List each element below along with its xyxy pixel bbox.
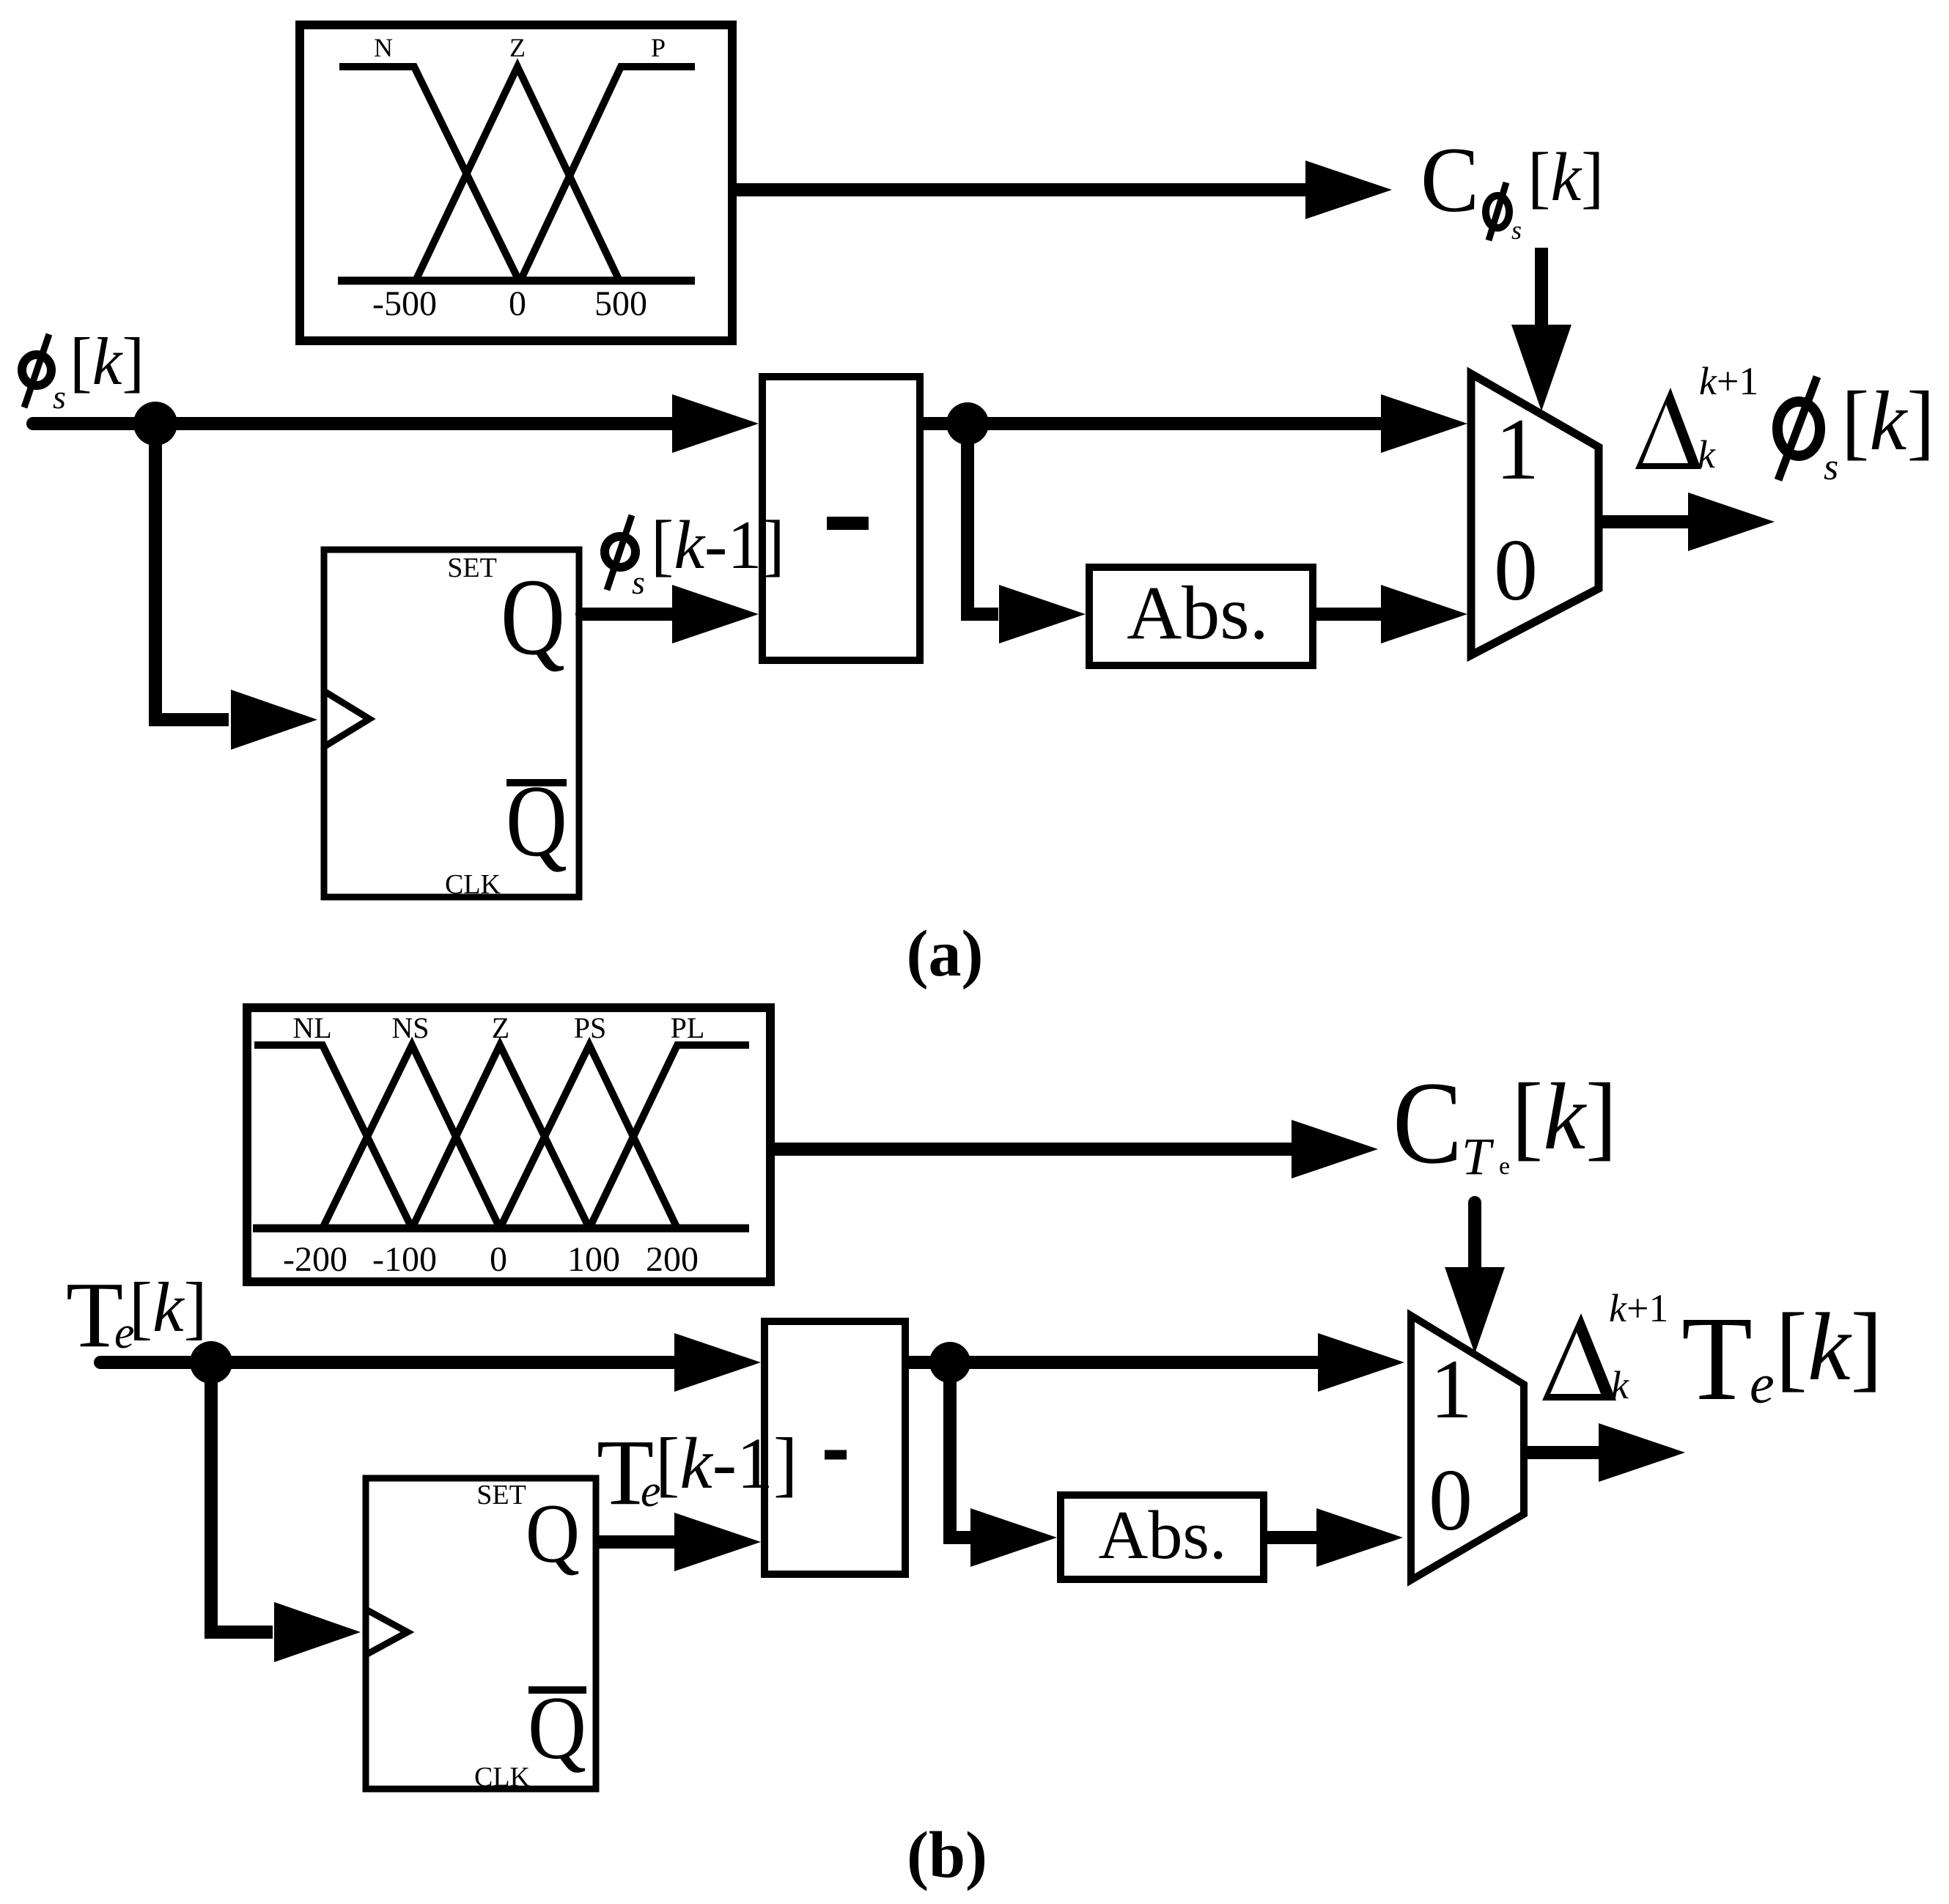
arrowhead into mux1 input 1 <box>1381 394 1467 453</box>
svg-text:[k-1]: [k-1] <box>655 1423 797 1504</box>
svg-text:NS: NS <box>391 1011 429 1044</box>
svg-text:k: k <box>1611 1363 1629 1407</box>
svg-text:Z: Z <box>509 33 526 62</box>
membership function PL <box>589 1045 749 1228</box>
svg-text:[k]: [k] <box>129 1268 207 1346</box>
membership function NS <box>323 1045 500 1228</box>
svg-text:[k]: [k] <box>1511 1064 1617 1170</box>
wire FZ1 to C output <box>737 183 1309 196</box>
arrowhead FZ1 out <box>1305 160 1392 219</box>
arrowhead into subtractor2 top <box>674 1333 761 1392</box>
Abs block A2 <box>1061 1495 1264 1579</box>
membership function Z <box>416 67 619 281</box>
svg-text:Abs.: Abs. <box>1099 1497 1227 1573</box>
svg-text:-100: -100 <box>372 1240 437 1279</box>
svg-text:Q: Q <box>528 1678 586 1778</box>
arrowhead into Abs2 <box>970 1508 1057 1567</box>
membership function NL <box>254 1045 412 1228</box>
mux MX1 <box>1471 374 1599 655</box>
svg-text:N: N <box>374 33 393 62</box>
svg-text:(b): (b) <box>907 1819 987 1892</box>
svg-text:CLK: CLK <box>445 869 501 900</box>
svg-text:e: e <box>1750 1354 1775 1415</box>
svg-text:[k]: [k] <box>1775 1293 1883 1401</box>
clock triangle FF2 <box>366 1609 408 1655</box>
svg-text:C: C <box>1421 129 1479 232</box>
svg-text:s: s <box>1511 215 1522 245</box>
fuzzy membership box FZ1 <box>300 25 732 341</box>
membership function PS <box>500 1045 677 1228</box>
wire subtractor1 to mux1 <box>924 417 1384 430</box>
svg-text:-500: -500 <box>372 284 437 323</box>
Q2 output wire <box>600 1535 674 1549</box>
svg-text:200: 200 <box>646 1240 699 1279</box>
clock triangle FF1 <box>324 691 369 747</box>
fuzzy membership box FZ2 <box>247 1008 770 1282</box>
svg-text:1: 1 <box>1430 1343 1473 1436</box>
clock arrowhead FF2 <box>274 1602 361 1662</box>
arrowhead into subtractor1 top <box>672 394 759 453</box>
axis line FZ2 <box>253 1225 749 1233</box>
branch wire to Abs2 <box>950 1362 972 1538</box>
svg-text:C: C <box>1393 1058 1462 1188</box>
svg-text:s: s <box>53 378 66 416</box>
mux2 output wire <box>1524 1446 1602 1459</box>
label Qbar <box>506 779 567 786</box>
svg-text:PS: PS <box>574 1011 607 1044</box>
label phi_s[k-1] <box>605 507 785 601</box>
branch wire to Abs1 <box>968 424 998 614</box>
main wire T_e[k] <box>100 1356 674 1369</box>
mux2 output arrowhead <box>1599 1423 1685 1482</box>
clock wire from node N1 <box>155 424 229 720</box>
label T_e[k-1] <box>597 1420 797 1524</box>
svg-text:(a): (a) <box>907 918 984 990</box>
svg-text:SET: SET <box>476 1480 526 1510</box>
svg-text:e: e <box>1499 1153 1510 1180</box>
membership function Z2 <box>412 1045 589 1228</box>
svg-text:Z: Z <box>492 1011 509 1044</box>
svg-text:PL: PL <box>671 1011 705 1044</box>
main wire phi_s[k] <box>33 417 674 430</box>
selector wire into mux2 <box>1468 1203 1481 1269</box>
svg-text:0: 0 <box>490 1240 507 1279</box>
clock arrowhead FF1 <box>231 690 317 750</box>
selector wire into mux1 <box>1535 248 1548 326</box>
membership function N <box>339 67 519 281</box>
svg-text:100: 100 <box>567 1240 620 1279</box>
svg-text:[k]: [k] <box>1528 139 1604 215</box>
label C_T_e[k] <box>1393 1058 1617 1188</box>
wire subtractor2 to mux2 <box>909 1356 1321 1369</box>
label Delta_k^k+1 T_e[k] <box>1542 1286 1883 1425</box>
svg-text:1: 1 <box>1495 400 1539 498</box>
clock wire from node N3 <box>211 1362 273 1632</box>
node N4 after subtractor2 <box>929 1342 970 1383</box>
svg-text:T: T <box>1462 1127 1495 1186</box>
mux MX2 <box>1411 1316 1524 1580</box>
svg-text:0: 0 <box>1494 521 1538 619</box>
svg-text:P: P <box>651 33 666 62</box>
minus sign S2 <box>825 1450 847 1460</box>
arrowhead into mux2 input 0 <box>1316 1508 1403 1567</box>
Abs block A1 <box>1089 567 1313 665</box>
svg-text:0: 0 <box>509 284 526 323</box>
svg-text:[k]: [k] <box>1841 374 1935 468</box>
svg-text:k+1: k+1 <box>1699 359 1758 403</box>
arrowhead into Abs1 <box>999 585 1086 643</box>
svg-text:Q: Q <box>506 764 567 878</box>
input label phi_s[k] <box>22 324 144 416</box>
node N3 <box>190 1341 232 1384</box>
flip-flop FF1 <box>324 550 579 900</box>
svg-text:Q: Q <box>526 1487 580 1580</box>
arrowhead into mux2 input 1 <box>1318 1333 1404 1392</box>
svg-text:0: 0 <box>1429 1451 1473 1549</box>
flip-flop FF2 <box>366 1478 596 1793</box>
arrowhead into mux1 input 0 <box>1381 585 1467 643</box>
svg-text:SET: SET <box>447 553 497 583</box>
Abs1 out wire <box>1316 608 1385 621</box>
Q1 output wire <box>582 608 674 621</box>
Delta glyph (hand drawn) <box>1635 388 1701 469</box>
Abs2 out wire <box>1267 1531 1319 1544</box>
phi subscript glyph <box>1486 196 1509 228</box>
svg-text:k: k <box>1698 432 1716 476</box>
node N2 after subtractor1 <box>946 402 989 445</box>
subtractor box S1 <box>762 377 920 660</box>
svg-text:[k]: [k] <box>70 324 144 399</box>
svg-text:CLK: CLK <box>474 1762 531 1793</box>
minus sign S1 <box>827 517 869 530</box>
label C_phi_s[k] <box>1421 129 1604 245</box>
subtractor box S2 <box>765 1321 905 1574</box>
axis line FZ1 <box>338 277 695 285</box>
arrowhead into subtractor1 bottom <box>672 585 759 643</box>
mux1 output wire <box>1599 515 1691 528</box>
label Qbar2 <box>528 1686 586 1694</box>
svg-text:s: s <box>632 564 645 601</box>
membership function P <box>520 67 695 281</box>
svg-text:k+1: k+1 <box>1609 1286 1668 1330</box>
selector arrowhead mux1 <box>1511 325 1572 411</box>
selector arrowhead mux2 <box>1445 1267 1505 1354</box>
arrowhead into subtractor2 bottom <box>674 1513 761 1571</box>
arrowhead FZ2 out <box>1292 1120 1378 1178</box>
svg-text:500: 500 <box>594 284 647 323</box>
mux1 output arrowhead <box>1688 492 1775 551</box>
svg-text:Q: Q <box>501 556 565 678</box>
svg-text:-200: -200 <box>283 1240 347 1279</box>
Delta glyph b (hand drawn) <box>1542 1313 1616 1401</box>
label Delta_k^k+1 phi_s[k] <box>1635 359 1935 488</box>
node N1 <box>133 402 177 446</box>
svg-text:T: T <box>1681 1291 1753 1425</box>
svg-text:Abs.: Abs. <box>1127 571 1269 655</box>
svg-text:NL: NL <box>292 1011 331 1044</box>
wire FZ2 to C output <box>775 1143 1294 1156</box>
input label T_e[k] <box>66 1263 207 1367</box>
svg-text:s: s <box>1824 446 1838 488</box>
